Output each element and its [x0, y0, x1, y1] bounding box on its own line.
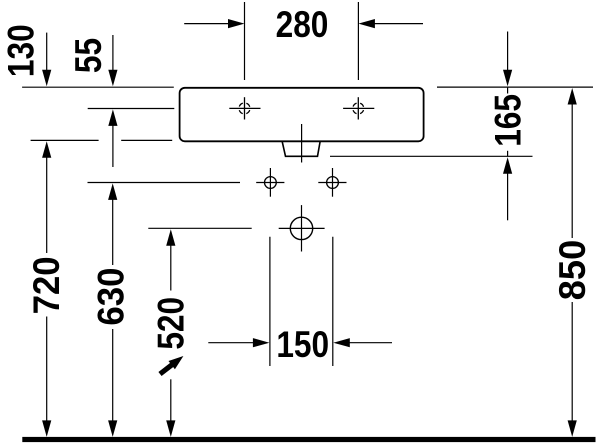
arrowhead 850 down	[568, 420, 577, 437]
arrowhead 630 down	[108, 420, 117, 437]
arrowhead 130 down	[42, 70, 51, 87]
arrowhead 280 right	[358, 19, 375, 28]
dim 280 extension lines	[244, 2, 246, 80]
fixing hole left	[256, 168, 284, 197]
tap hole crosshair right	[343, 97, 374, 119]
arrowhead 850 up	[568, 88, 577, 105]
reference line drain height	[148, 227, 251, 229]
reference line fixing holes	[88, 182, 241, 184]
arrowhead 55 down	[108, 70, 117, 87]
svg-text:150: 150	[276, 325, 329, 366]
arrowhead 150 right-pointing-left	[333, 338, 350, 347]
dim 165 upper stem	[507, 32, 509, 73]
arrowhead 55 up	[108, 109, 117, 126]
svg-text:165: 165	[488, 94, 529, 147]
dim 130 upper stem	[46, 33, 48, 72]
center line through drain	[301, 124, 303, 163]
washbasin body outline	[180, 88, 424, 142]
reference line siphon bottom	[330, 155, 533, 157]
dim 720 line	[46, 156, 48, 254]
svg-text:280: 280	[276, 5, 329, 46]
svg-text:720: 720	[26, 256, 67, 314]
dim 55 upper stem	[112, 35, 114, 72]
arrowhead 280 left	[228, 19, 245, 28]
reference line rim left	[22, 86, 174, 88]
dim 630 line	[112, 198, 114, 266]
arrowhead 720 down	[42, 420, 51, 437]
drain trapezoid	[282, 142, 320, 157]
tap hole crosshair left	[229, 97, 260, 119]
dim 165 line stub below rim line	[507, 88, 509, 94]
svg-text:130: 130	[1, 24, 42, 77]
drain hole circle	[279, 205, 325, 251]
arrowhead 520 up	[166, 229, 175, 246]
arrowhead 520 down	[166, 420, 175, 437]
dim 850 line	[571, 102, 573, 238]
arrowhead 165 up	[503, 157, 512, 174]
reference line tap holes	[88, 108, 175, 110]
dim 520 line	[170, 244, 172, 291]
svg-text:520: 520	[151, 297, 192, 350]
arrowhead 165 down	[503, 70, 512, 87]
arrowhead 150 left-pointing-right	[253, 338, 270, 347]
svg-text:850: 850	[552, 240, 593, 300]
dim 55 lower stem	[112, 124, 114, 167]
floor line	[22, 437, 595, 442]
svg-text:55: 55	[69, 38, 110, 73]
reference line basin bottom	[31, 139, 99, 141]
fixing hole right	[318, 168, 346, 197]
svg-text:630: 630	[91, 268, 132, 326]
dim 280 arrow tails	[184, 23, 230, 25]
dim 165 line stub above siphon line	[507, 151, 509, 157]
reference line rim right	[437, 86, 593, 88]
special NE arrow under 520	[160, 356, 183, 374]
dim 150 arrow tails	[208, 342, 255, 344]
dim 165 lower stem	[507, 171, 509, 220]
arrowhead 630 up	[108, 183, 117, 200]
arrowhead 720 up	[42, 141, 51, 158]
dim 150 extension lines	[269, 237, 271, 366]
